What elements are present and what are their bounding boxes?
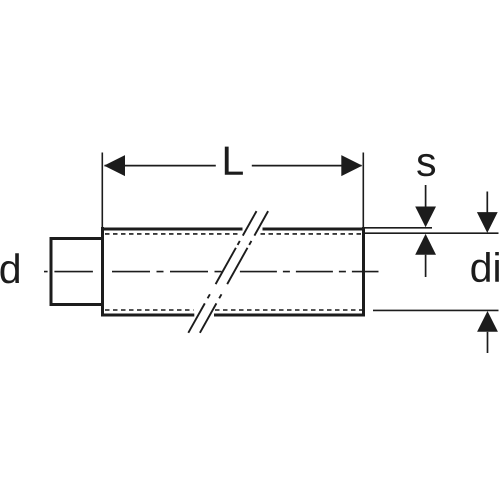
label d: [1, 253, 19, 283]
L dimension extension lines: [102, 153, 363, 229]
label s: [417, 154, 435, 176]
break line left: [188, 211, 256, 333]
label di: [471, 252, 498, 282]
di down arrow: [477, 192, 498, 233]
label L: [225, 147, 243, 175]
left edge: [101, 227, 104, 317]
spigot body: [51, 239, 103, 305]
di bottom extension line: [373, 309, 499, 311]
di up arrow: [477, 311, 498, 353]
break line right: [200, 211, 268, 333]
s dimension: inner wall extension line: [365, 232, 499, 234]
bottom edge (gap at break): [101, 314, 194, 317]
pipe body outline: [101, 227, 365, 317]
s up arrow: [415, 234, 436, 277]
right edge: [362, 227, 365, 317]
L arrow left: [104, 155, 125, 176]
centerline: [44, 271, 379, 273]
L arrow right: [341, 155, 362, 176]
inner wall dashed lines: [105, 234, 362, 310]
top edge (gap at break): [101, 228, 243, 231]
s down arrow: [415, 185, 436, 227]
s dimension: outer wall extension line: [365, 227, 433, 229]
L dimension line: [105, 165, 362, 167]
